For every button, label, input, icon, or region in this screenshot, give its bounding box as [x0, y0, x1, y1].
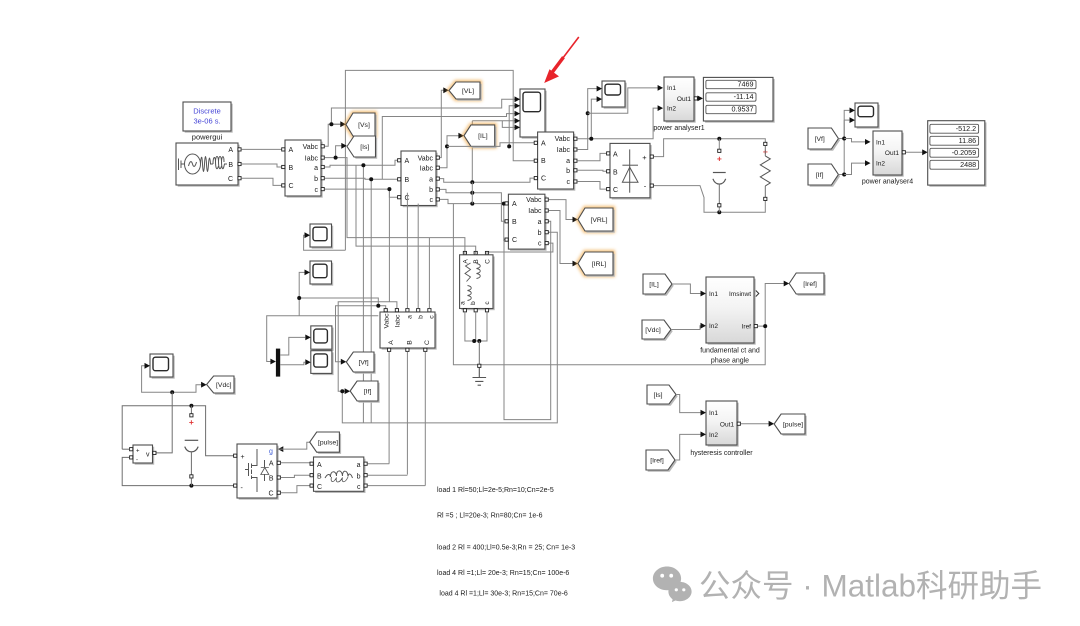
svg-text:Iabc: Iabc: [420, 166, 434, 173]
wire Vf If junctions to scope3 and analyser4: [838, 110, 849, 138]
wire rotated a up: [406, 193, 408, 309]
three-phase programmable source: [178, 145, 240, 187]
svg-text:a: a: [538, 219, 542, 226]
scope 3: [857, 105, 880, 129]
goto tag VRL highlighted: [578, 208, 613, 231]
wire corridor tap to scope arrows 4 5: [472, 120, 519, 122]
VI measurement rotated: [406, 309, 409, 312]
svg-text:Discrete: Discrete: [193, 107, 221, 116]
svg-text:Iabc: Iabc: [305, 155, 319, 162]
svg-text:B: B: [473, 259, 480, 263]
svg-text:b: b: [357, 474, 361, 481]
wire Vabc3 to scope2 and analyser In2: [577, 108, 658, 139]
wire IL dot to meas3 A: [447, 143, 536, 147]
svg-text:7469: 7469: [738, 80, 754, 89]
goto tag Vdc: [208, 378, 235, 395]
scope near rectifier: [604, 83, 627, 109]
svg-text:C: C: [268, 491, 273, 498]
IGBT inverter universal bridge: [239, 446, 279, 500]
svg-text:-11.14: -11.14: [734, 92, 754, 101]
wire analyser4 out to display4: [906, 151, 923, 153]
display block 4 values: [929, 122, 986, 186]
svg-text:a: a: [429, 176, 433, 183]
svg-text:-512.2: -512.2: [956, 124, 976, 133]
svg-text:+: +: [189, 417, 194, 427]
from tag pulse mirrored: [311, 434, 341, 454]
svg-text:In1: In1: [667, 85, 676, 92]
three-phase VI measurement 3: [539, 134, 575, 191]
svg-text:C: C: [424, 340, 431, 345]
wire vmeter to Vdc tag: [172, 385, 201, 393]
svg-text:A: A: [613, 151, 618, 158]
wire rotated c up: [428, 238, 430, 309]
svg-text:[Is]: [Is]: [360, 144, 369, 151]
svg-text:-: -: [136, 458, 138, 464]
power analyser1 subsystem: [666, 79, 696, 123]
svg-text:0.9537: 0.9537: [732, 105, 754, 114]
svg-text:B: B: [406, 340, 413, 345]
svg-text:C: C: [613, 187, 618, 194]
three-phase VI measurement 1: [287, 142, 323, 198]
wire a3 to bridge A: [577, 153, 606, 160]
wire block4 a bottom loop: [504, 221, 551, 419]
svg-text:[IRL]: [IRL]: [592, 261, 606, 268]
wire b1 tap to scope: [382, 114, 519, 180]
svg-text:[If]: [If]: [816, 172, 824, 179]
svg-text:In2: In2: [709, 323, 718, 330]
goto tag Iref: [791, 275, 826, 296]
wire vertical link dots: [471, 182, 473, 203]
goto tag Vs highlighted: [346, 113, 375, 136]
svg-text:fundamental ct and: fundamental ct and: [700, 348, 760, 355]
svg-text:A: A: [541, 140, 546, 147]
from tag Vf right: [810, 130, 840, 151]
wire bridge + to dc link: [654, 139, 766, 157]
svg-text:B: B: [613, 169, 618, 176]
svg-text:In2: In2: [709, 432, 718, 439]
wire rotated C down to filter c: [424, 352, 426, 486]
svg-text:B: B: [405, 177, 410, 184]
svg-text:In1: In1: [709, 291, 718, 298]
svg-text:[VL]: [VL]: [462, 88, 474, 95]
goto tag pulse: [776, 416, 807, 436]
svg-text:b: b: [314, 176, 318, 183]
wire source A to meas1 A: [241, 148, 281, 150]
dc link capacitor: [718, 149, 721, 152]
wire filter c up: [367, 485, 425, 487]
inverter dc capacitor: [190, 406, 192, 414]
svg-text:load 4 Rl =1;Ll= 30e-3; Rn=15;: load 4 Rl =1;Ll= 30e-3; Rn=15;Cn= 70e-6: [439, 591, 568, 598]
wire pulse tag to inverter g: [278, 446, 284, 452]
svg-text:b: b: [470, 301, 477, 305]
svg-text:+: +: [136, 448, 140, 454]
svg-text:A: A: [388, 340, 395, 345]
wire Iref feedback long: [453, 204, 765, 365]
from tag Is: [649, 387, 678, 406]
scope 6-input: [522, 91, 547, 139]
svg-text:Imsinwt: Imsinwt: [729, 291, 751, 298]
svg-text:Iref: Iref: [742, 324, 752, 331]
svg-text:C: C: [541, 176, 546, 183]
wire scope A feed: [304, 235, 346, 250]
svg-text:C: C: [289, 183, 294, 190]
svg-text:Vabc: Vabc: [418, 155, 434, 162]
svg-text:In1: In1: [709, 410, 718, 417]
svg-text:[Is]: [Is]: [653, 392, 662, 399]
svg-text:公众号 · Matlab科研助手: 公众号 · Matlab科研助手: [699, 568, 1042, 604]
svg-text:a: a: [460, 301, 467, 305]
dc link load resistor: [764, 142, 767, 145]
svg-text:a: a: [407, 315, 414, 319]
wire filter a up: [367, 463, 389, 465]
svg-text:Out1: Out1: [677, 96, 691, 103]
svg-text:Out1: Out1: [885, 150, 899, 157]
wire source C to meas1 C: [241, 178, 281, 185]
svg-text:+: +: [241, 454, 245, 461]
svg-text:[pulse]: [pulse]: [783, 421, 803, 428]
scope E: [152, 356, 175, 379]
from tag If right: [810, 166, 840, 187]
wire scope B feed from Vf line: [299, 272, 378, 305]
svg-text:powergui: powergui: [192, 133, 223, 142]
from tag Vdc: [644, 322, 673, 341]
svg-text:+: +: [717, 154, 722, 164]
wire inverter dc top rail: [122, 406, 235, 456]
svg-text:C: C: [317, 484, 322, 491]
wire rotated B down to filter b: [406, 352, 408, 475]
wire load B feed: [356, 165, 476, 252]
svg-text:[If]: [If]: [364, 388, 372, 395]
svg-text:C: C: [228, 176, 233, 183]
svg-text:power analyser4: power analyser4: [862, 179, 913, 186]
display block 3 values: [705, 79, 775, 123]
svg-text:Vabc: Vabc: [555, 136, 571, 143]
wire inverter C to filter C: [281, 486, 312, 493]
svg-text:c: c: [430, 197, 434, 204]
svg-text:g: g: [269, 449, 273, 456]
svg-text:[IL]: [IL]: [649, 281, 659, 288]
wire Iabc3 to scope2: [577, 89, 597, 150]
wire vmeter out up: [154, 392, 172, 453]
voltage measurement block: [135, 447, 155, 465]
goto tag If: [352, 383, 380, 403]
svg-text:a: a: [566, 158, 570, 165]
svg-text:c: c: [567, 179, 571, 186]
red annotation arrow: [563, 37, 579, 59]
svg-text:A: A: [228, 147, 233, 154]
three-phase series RLC load rotated: [463, 251, 466, 254]
dot scope feed on A3 line: [507, 144, 511, 148]
svg-text:c: c: [315, 187, 319, 194]
scope D: [313, 352, 334, 375]
svg-text:[Vdc]: [Vdc]: [216, 382, 232, 389]
svg-text:C: C: [485, 259, 492, 264]
svg-text:[VRL]: [VRL]: [591, 217, 608, 224]
hysteresis controller subsystem: [708, 403, 739, 447]
wire bridge - to dc link bottom: [654, 186, 766, 213]
wire top loop to meas3 B: [345, 70, 535, 250]
wire block4 b down to If loop: [342, 232, 557, 423]
svg-text:b: b: [429, 187, 433, 194]
svg-text:In2: In2: [876, 161, 885, 168]
svg-text:+: +: [642, 153, 647, 162]
wire Vabc4 to VRL: [549, 200, 573, 220]
svg-text:A: A: [317, 462, 322, 469]
fundamental ct and phase angle subsystem: [708, 279, 756, 345]
svg-text:phase angle: phase angle: [711, 358, 749, 365]
wire Is to hyst In1: [676, 395, 701, 413]
wire to analyser1 In1 around scope: [588, 88, 658, 113]
wire c1 to meas2 C: [325, 189, 400, 197]
goto tag Vf: [348, 354, 376, 374]
wire inverter A to filter A: [281, 462, 312, 465]
svg-text:Vabc: Vabc: [303, 144, 319, 151]
svg-text:B: B: [317, 474, 322, 481]
power analyser4 subsystem: [875, 133, 904, 177]
svg-text:[pulse]: [pulse]: [318, 440, 338, 447]
wire Vabc1 to Vs tag: [325, 124, 341, 146]
svg-text:Iabc: Iabc: [528, 208, 542, 215]
wire a1 to meas2 A: [325, 160, 400, 167]
wire corridor a1 down: [362, 165, 364, 423]
wire analyser1 out to display1: [698, 97, 699, 99]
wire meas4 C feed: [503, 204, 505, 241]
wire c2 to meas4 A: [440, 199, 507, 203]
svg-text:c: c: [429, 315, 436, 319]
wire hyst out to pulse tag: [741, 423, 769, 425]
svg-text:power analyser1: power analyser1: [653, 125, 704, 132]
svg-text:Vabc: Vabc: [384, 313, 391, 329]
goto tag Is: [349, 138, 378, 159]
wire rotated A down to filter a: [388, 352, 390, 464]
wire Iabc1 to Is tag: [325, 146, 342, 158]
svg-text:load 2 Rl = 400;Ll=0.5e-3;Rn =: load 2 Rl = 400;Ll=0.5e-3;Rn = 25; Cn= 1…: [437, 545, 575, 552]
wire c4 to load C: [487, 243, 553, 252]
svg-text:C: C: [512, 237, 517, 244]
svg-text:A: A: [463, 259, 470, 264]
scope C: [313, 328, 334, 351]
wire Iref out to tag: [758, 284, 784, 327]
svg-text:B: B: [541, 158, 546, 165]
svg-text:-0.2059: -0.2059: [952, 148, 976, 157]
wire demux out2 to scope D: [280, 362, 305, 365]
wire Vabc2 up to VL tag: [440, 90, 444, 157]
wire demux out1 to scope C: [280, 337, 305, 355]
diode rectifier universal bridge: [612, 145, 652, 199]
wire b3 to bridge B: [577, 170, 606, 171]
wire IL to In1: [672, 284, 701, 294]
wire inverter B to filter B: [281, 475, 312, 477]
svg-text:[Vs]: [Vs]: [358, 122, 370, 129]
wire b1 to meas2 B: [325, 178, 400, 179]
wire Iabc2 up to IL tag: [440, 136, 459, 168]
wire c3 to bridge C: [577, 182, 606, 190]
svg-text:A: A: [269, 461, 274, 468]
wire filter b up: [367, 474, 407, 476]
scope B: [312, 263, 334, 286]
wire rotated b up: [417, 204, 419, 309]
svg-text:a: a: [357, 462, 361, 469]
svg-text:Vabc: Vabc: [526, 197, 542, 204]
svg-text:A: A: [289, 147, 294, 154]
svg-text:b: b: [538, 230, 542, 237]
svg-text:v: v: [146, 452, 150, 459]
svg-text:Iabc: Iabc: [557, 147, 571, 154]
svg-text:[Vf]: [Vf]: [815, 136, 825, 143]
svg-text:Out1: Out1: [720, 421, 734, 428]
svg-text:[Vf]: [Vf]: [358, 359, 368, 366]
svg-text:2488: 2488: [960, 160, 976, 169]
wire a2 to meas3 C: [440, 178, 536, 182]
svg-text:[Iref]: [Iref]: [650, 457, 664, 464]
ground symbol: [478, 364, 481, 367]
svg-text:a: a: [314, 165, 318, 172]
svg-text:[IL]: [IL]: [478, 133, 488, 140]
powergui block: [185, 104, 233, 133]
svg-text:B: B: [269, 476, 274, 483]
wire scope E feed: [142, 366, 173, 392]
svg-text:In1: In1: [876, 139, 885, 146]
wire scope input 2 from A3 line: [509, 106, 519, 147]
wire load to ground: [465, 312, 487, 341]
svg-text:B: B: [512, 219, 517, 226]
svg-text:load 4 Rl =1;Ll= 20e-3; Rn=15;: load 4 Rl =1;Ll= 20e-3; Rn=15;Cn= 100e-6: [437, 570, 569, 577]
three-phase VI measurement 2: [403, 153, 438, 208]
demux: [276, 349, 280, 377]
goto tag VL highlighted: [449, 82, 480, 99]
svg-text:B: B: [228, 162, 233, 169]
svg-text:b: b: [417, 315, 424, 319]
svg-text:load 1 Rl=50;Ll=2e-5;Rn=10;Cn=: load 1 Rl=50;Ll=2e-5;Rn=10;Cn=2e-5: [437, 487, 554, 494]
wechat watermark: [653, 567, 692, 603]
svg-text:c: c: [357, 484, 361, 491]
svg-text:hysteresis controller: hysteresis controller: [690, 450, 753, 457]
goto tag IRL highlighted: [578, 252, 613, 275]
svg-text:B: B: [289, 165, 294, 172]
wire load A feed: [336, 158, 465, 252]
svg-text:3e-06 s.: 3e-06 s.: [193, 117, 220, 126]
wire source B to meas1 B: [241, 164, 281, 167]
wire b2 to meas4 B: [440, 189, 507, 221]
from tag Iref bottom: [648, 452, 677, 472]
wire Vabc1 tap to scope: [331, 99, 519, 124]
wire Vdc to In2: [671, 326, 701, 330]
svg-text:Iabc: Iabc: [395, 314, 402, 327]
svg-text:In2: In2: [667, 106, 676, 113]
svg-text:b: b: [566, 168, 570, 175]
goto tag IL highlighted: [464, 125, 495, 146]
wire inverter dc bottom rail: [122, 457, 235, 485]
wire demux feed horizontal: [267, 316, 379, 362]
wire corridor c1 down: [388, 189, 390, 302]
three-phase VI measurement 4: [510, 196, 546, 251]
svg-text:Rl =5 ; Ll=20e-3; Rn=80;Cn= 1e: Rl =5 ; Ll=20e-3; Rn=80;Cn= 1e-6: [437, 513, 543, 520]
wire Iref to hyst In2: [675, 434, 701, 460]
svg-text:A: A: [512, 201, 517, 208]
svg-text:[Iref]: [Iref]: [803, 281, 817, 288]
wire rotated Vabc out to Vf tag: [336, 306, 386, 362]
arrow analyser1 In2: [658, 105, 664, 111]
svg-text:A: A: [405, 158, 410, 165]
wire corridor b1 down: [370, 179, 372, 423]
three-phase inductor filter: [315, 459, 365, 493]
svg-text:[Vdc]: [Vdc]: [645, 327, 661, 334]
svg-text:c: c: [538, 241, 542, 248]
svg-text:11.86: 11.86: [959, 136, 976, 145]
scope A: [312, 226, 334, 249]
wire rotated Iabc out to If tag: [338, 302, 397, 391]
from tag IL: [645, 276, 674, 296]
wire Iabc4 to IRL: [549, 211, 573, 264]
